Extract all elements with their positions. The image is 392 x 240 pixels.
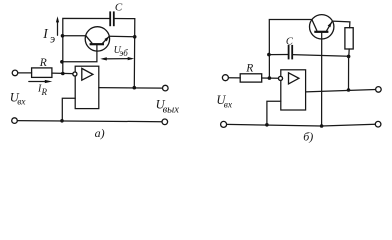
wire: top rail right segment and right rail down (a) (114, 19, 135, 88)
node: output junction with right rail (a) (133, 86, 137, 90)
wire: node vertical up and top rail to transistor (b) (269, 20, 312, 79)
svg-text:э: э (50, 32, 55, 46)
label U_vx (b) (216, 93, 233, 110)
transistor VT2 (b) (310, 15, 334, 39)
svg-text:вых: вых (163, 104, 180, 115)
current arrow I_e (a) (56, 16, 59, 35)
wire: node1 to transistor left lead (a) (63, 35, 86, 37)
dimension arrow U_eb (a) (100, 57, 134, 61)
label U_vyx (a) (156, 97, 180, 115)
bubble redraw over rect edge (b) (279, 76, 283, 80)
label I_e (a) (42, 26, 55, 46)
current arrow I_R (a) (29, 80, 53, 83)
transistor VT1 (a) (85, 27, 109, 51)
wire: left vertical and top rail left segment (a) (63, 18, 110, 73)
wire: bottom rail (b) (227, 124, 376, 126)
wire: transistor right lead to resistor top (b) (332, 21, 350, 28)
svg-text:R: R (39, 57, 47, 69)
wire: resistor node down to output line (b) (348, 56, 350, 90)
wire: op-amp output line (b) (306, 90, 376, 92)
wire: non-inverting input to bottom rail (a) (62, 98, 75, 121)
capacitor C (b) (289, 45, 293, 60)
svg-text:I: I (42, 26, 49, 41)
svg-text:эб: эб (119, 48, 128, 58)
wire: R to node A (a) (52, 72, 73, 75)
wire: op-amp output (a) (99, 87, 163, 90)
op-amp U2 body (b) (281, 70, 306, 110)
svg-text:а): а) (95, 126, 105, 140)
svg-text:R: R (245, 62, 253, 74)
inversion bubble of op-amp (b) (279, 76, 283, 80)
resistor (vertical, collector load) (b) (345, 28, 353, 49)
svg-text:вх: вх (224, 101, 233, 111)
terminal: output bottom-right (b) (375, 121, 381, 127)
wire: base of transistor to node2 (a) (63, 44, 97, 61)
node: capacitor tap on vertical (b) (267, 53, 271, 57)
node: non-inverting drop on bottom rail (b) (265, 123, 269, 127)
wire: non-inverting input to bottom rail (b) (267, 101, 281, 125)
label I_R (a) (37, 83, 48, 97)
wire: transistor base vertical down to bottom rail (b) (321, 32, 323, 126)
inversion bubble of op-amp (a) (73, 72, 77, 76)
node: below resistor (b) (347, 55, 351, 59)
op-amp U1 triangle symbol (a) (82, 68, 93, 80)
capacitor C (a) (110, 11, 114, 26)
wire: capacitor left lead (b) (269, 54, 288, 56)
label U_eb (a) (114, 45, 129, 58)
terminal: output top-right (b) (376, 87, 382, 93)
node: inverting input node (b) (268, 76, 272, 80)
wire: resistor bottom to node (b) (348, 49, 350, 56)
terminal: bottom-left (a) (12, 118, 18, 124)
resistor R (b) (240, 74, 262, 82)
op-amp U2 triangle symbol (b) (289, 73, 299, 84)
terminal: output bottom-right (a) (162, 119, 168, 125)
op-amp U1 body (a) (75, 66, 99, 108)
wire: capacitor right lead to base vertical (b) (292, 55, 348, 57)
terminal: output top-right (a) (163, 85, 169, 91)
resistor R (a) (32, 68, 52, 78)
svg-text:C: C (286, 37, 294, 48)
wire: bottom rail (a) (17, 121, 162, 122)
node: base vertical on bottom rail (b) (320, 124, 324, 128)
node 1: emitter wire junction (a) (61, 34, 65, 38)
label U_vx (a) (10, 90, 27, 107)
wire: transistor right lead to rail (a) (109, 35, 134, 38)
svg-text:R: R (41, 87, 48, 97)
terminal: input bottom-left (b) (221, 121, 227, 127)
svg-text:б): б) (303, 130, 313, 144)
wire: R to inverting node (b) (262, 77, 279, 79)
svg-text:C: C (115, 1, 123, 13)
terminal: input top-left (b) (222, 75, 228, 81)
wire: input terminal to resistor R (a) (18, 72, 32, 74)
terminal: input top-left (a) (12, 70, 18, 76)
bubble redraw over rect edge (a) (73, 72, 77, 76)
node: non-inverting drop on bottom rail (a) (60, 119, 64, 123)
node: on output line (b) (347, 88, 351, 92)
node: collector wire to right rail (a) (133, 35, 137, 39)
node A junction dot (a) (61, 72, 65, 76)
node 2: base wire junction (a) (60, 60, 64, 64)
wire: input terminal to R (b) (229, 77, 241, 79)
svg-text:вх: вх (17, 98, 26, 108)
